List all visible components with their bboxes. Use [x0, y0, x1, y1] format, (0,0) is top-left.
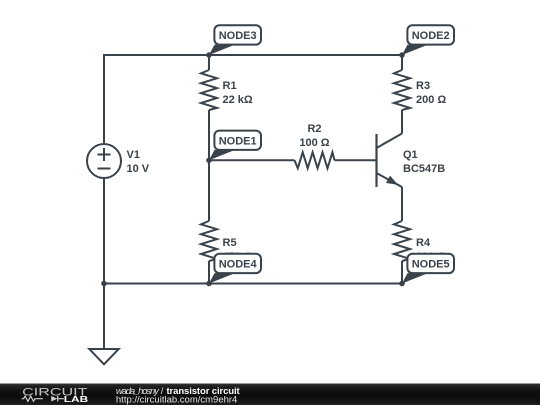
svg-text:http://circuitlab.com/cm9ehr4: http://circuitlab.com/cm9ehr4 [116, 394, 237, 405]
svg-text:R1: R1 [223, 80, 237, 92]
wire R2 to Q1 base [335, 159, 377, 161]
svg-text:R2: R2 [307, 123, 321, 135]
resistor R3 [394, 70, 410, 110]
footer logo resistor-diode glyph [22, 396, 64, 402]
svg-text:10 V: 10 V [127, 163, 150, 175]
label R3 200 Ohm [416, 80, 446, 106]
svg-text:100 Ω: 100 Ω [299, 137, 329, 149]
resistor R5 [201, 221, 217, 261]
svg-text:R5: R5 [223, 237, 237, 249]
wire R1 top lead [208, 55, 210, 70]
label R5 value [223, 237, 253, 263]
svg-text:LAB: LAB [64, 395, 89, 404]
svg-text:R3: R3 [416, 80, 430, 92]
node label NODE1 [209, 131, 261, 161]
svg-text:NODE2: NODE2 [412, 30, 450, 42]
wire Q1 emitter to R4 [401, 187, 403, 221]
wire R3 top lead [401, 55, 403, 70]
svg-text:NODE1: NODE1 [219, 135, 257, 147]
wire left V1 bottom to ground rail [103, 178, 105, 284]
node dot NODE1 [206, 158, 212, 164]
svg-text:NODE4: NODE4 [219, 259, 258, 271]
resistor R2 [295, 152, 335, 168]
svg-text:R4: R4 [416, 237, 431, 249]
wire R5 bottom lead [208, 261, 210, 284]
wire base NODE1 to R2 [209, 159, 295, 161]
label R4 value [416, 237, 446, 263]
ground [89, 349, 118, 364]
wire bottom rail [104, 283, 402, 285]
footer bar [0, 384, 540, 405]
label R2 100 Ohm [299, 123, 329, 149]
wire ground lead [103, 284, 105, 350]
node dot NODE4 [206, 281, 212, 287]
wire R1 bottom lead to NODE1 [208, 110, 210, 160]
node label NODE2 [402, 25, 454, 55]
label R1 22 kOhm [223, 80, 253, 106]
node label NODE5 [402, 254, 454, 284]
voltage source V1 [87, 144, 121, 178]
svg-text:V1: V1 [127, 149, 140, 161]
node dot top-right rail junction NODE2 [399, 52, 405, 58]
svg-text:Q1: Q1 [403, 149, 418, 161]
label Q1 BC547B [403, 149, 445, 175]
resistor R1 [201, 70, 217, 110]
resistor R4 [394, 221, 410, 261]
footer credit line [116, 386, 241, 405]
svg-text:NODE3: NODE3 [219, 30, 257, 42]
svg-text:200 Ω: 200 Ω [416, 94, 446, 106]
node dot ground rail left [101, 281, 107, 287]
wire R4 bottom lead [401, 261, 403, 284]
transistor Q1 [377, 134, 403, 188]
svg-text:BC547B: BC547B [403, 163, 445, 175]
wire R3 bottom lead [401, 110, 403, 134]
node dot top-left rail junction NODE3 [206, 52, 212, 58]
label V1 10 V [127, 149, 150, 175]
node dot NODE5 [399, 281, 405, 287]
node label NODE4 [209, 254, 261, 284]
svg-text:22 kΩ: 22 kΩ [223, 94, 253, 106]
wire R5 top lead [208, 160, 210, 221]
svg-text:NODE5: NODE5 [412, 259, 450, 271]
wire top rail [104, 55, 402, 144]
node label NODE3 [209, 25, 261, 55]
